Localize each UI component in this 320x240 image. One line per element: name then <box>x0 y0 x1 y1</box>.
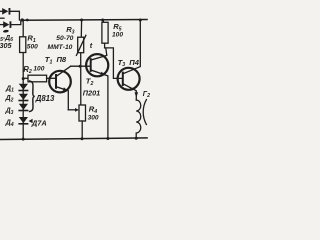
svg-text:R2: R2 <box>23 65 32 75</box>
svg-text:500: 500 <box>27 43 38 50</box>
resistor R4 <box>79 105 86 121</box>
node thermistor tap top <box>80 19 83 22</box>
diode D6 <box>0 20 21 28</box>
svg-text:50-70: 50-70 <box>56 35 73 42</box>
node bottom left <box>22 138 25 141</box>
svg-text:R1: R1 <box>27 33 35 43</box>
brace D813 group <box>30 81 35 112</box>
svg-text:Д3: Д3 <box>5 108 14 116</box>
resistor R1 <box>20 37 26 53</box>
wire R5/T2 collector to T3 base <box>105 48 122 79</box>
zener D1 <box>18 84 28 92</box>
svg-text:ММТ-10: ММТ-10 <box>48 44 73 51</box>
node R2 tap <box>22 77 25 80</box>
print artifact dash <box>3 30 9 33</box>
svg-text:Т2: Т2 <box>86 77 94 87</box>
wire R4 to bus <box>81 121 83 139</box>
svg-text:Т1 П8: Т1 П8 <box>45 55 67 65</box>
svg-text:t: t <box>90 41 93 50</box>
transistor T3 <box>118 20 141 100</box>
resistor R5 <box>101 19 108 48</box>
node rectifier output junction <box>21 18 24 21</box>
svg-text:Д7А: Д7А <box>31 118 47 127</box>
svg-text:Д2: Д2 <box>5 95 14 103</box>
svg-text:Д1: Д1 <box>5 85 14 93</box>
svg-text:100: 100 <box>33 66 44 73</box>
svg-text:305: 305 <box>0 41 12 50</box>
svg-text:Д813: Д813 <box>35 94 55 103</box>
svg-text:Г2: Г2 <box>143 91 150 99</box>
D7A arrow <box>29 119 33 123</box>
node T2 base junction <box>79 65 82 68</box>
zener D3 <box>18 104 28 112</box>
wire left column <box>22 20 24 139</box>
inductor Gr2 coil <box>136 100 141 138</box>
diode D4 <box>18 117 28 125</box>
thermistor R3 <box>76 35 86 55</box>
zener D2 <box>18 94 28 102</box>
wire top bus <box>22 19 148 22</box>
svg-text:300: 300 <box>88 115 99 122</box>
diode D5 <box>0 8 19 20</box>
svg-text:R4: R4 <box>89 104 97 114</box>
svg-text:П201: П201 <box>83 88 100 97</box>
resistor R2 <box>23 77 28 79</box>
node bus second junction <box>26 19 29 22</box>
svg-text:Д4: Д4 <box>5 119 14 127</box>
svg-text:100: 100 <box>112 32 123 39</box>
R4 wiper arrow from T1 emitter <box>68 108 79 112</box>
wire bottom bus <box>0 138 147 140</box>
transistor T2 <box>86 48 108 139</box>
wire T2 base line <box>71 65 90 67</box>
svg-text:Т3 П4: Т3 П4 <box>118 58 140 68</box>
wire thermistor column <box>80 20 83 105</box>
transistor T1 <box>49 66 71 110</box>
earphone membrane arc <box>143 100 146 125</box>
wire centre-tap stub <box>0 17 4 19</box>
